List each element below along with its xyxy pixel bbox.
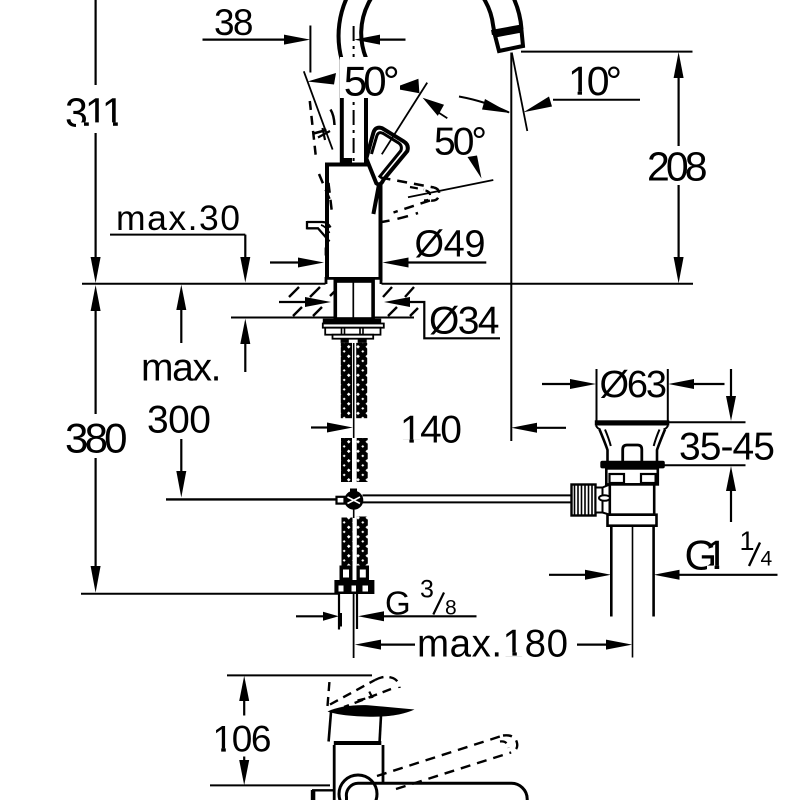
- dim G1 1/4 arrow right-pointing: [585, 570, 611, 580]
- band window 1: [339, 586, 344, 592]
- hose end nut right window: [360, 570, 366, 578]
- nut-body link: [596, 488, 603, 513]
- dim 38 arrow right-pointing: [284, 35, 310, 45]
- dim 35-45 bottom reference: [660, 464, 746, 466]
- dim G3/8 line left: [296, 615, 323, 617]
- dim 38 extension line: [309, 26, 311, 73]
- dashed lever pos2 inner edge: [410, 187, 424, 190]
- dim 35-45 arrow up: [726, 466, 736, 491]
- angle line right (solid handle axis): [382, 83, 427, 155]
- centerline extension below hoses: [353, 594, 355, 658]
- dim 380 arrow down: [91, 566, 101, 593]
- dashed lowered lever upper edge: [377, 736, 503, 777]
- dashed lever pos1 inner cap: [314, 130, 327, 134]
- dashed raised lever cap: [375, 677, 400, 688]
- left tab tick: [325, 248, 327, 256]
- dim max.30 lower shaft: [244, 344, 246, 372]
- washer white: [323, 324, 384, 328]
- body cylinder: [327, 165, 381, 280]
- left tab bottom edge: [307, 228, 330, 241]
- svg-text:max.30: max.30: [116, 198, 240, 238]
- dashed lever pos1 left edge: [310, 101, 316, 158]
- dim O63 line right: [694, 383, 725, 385]
- dim 311/380 shaft upper: [94, 0, 96, 257]
- tailpipe centerline: [632, 526, 634, 658]
- hose end band: [334, 580, 374, 594]
- aerator outlet block: [495, 31, 523, 52]
- mounting nut: [325, 328, 380, 335]
- cone upper: [603, 484, 610, 487]
- 106 bottom reference line: [210, 784, 330, 786]
- svg-text:311: 311: [65, 89, 125, 135]
- dim 140 right extension (vertical from deck): [510, 284, 512, 441]
- drain flange (thick): [595, 420, 670, 425]
- dim O34 arrow right-pointing: [305, 297, 331, 307]
- horizontal rod upper line: [363, 494, 572, 496]
- lever blade (black): [328, 705, 415, 717]
- dim 380 arrow up: [91, 285, 101, 311]
- dashed lever pos1 cap dash top: [344, 89, 351, 91]
- ball highlights: [348, 497, 361, 504]
- spout stub top edge: [312, 789, 334, 791]
- dim max.30 arrow down: [240, 257, 250, 283]
- dim G1 1/4 line left: [549, 574, 585, 576]
- O63 extension line left: [596, 369, 598, 421]
- deck top line left: [82, 283, 326, 285]
- 10 deg leader arrowhead: [524, 97, 553, 113]
- dim G1 1/4 line right: [680, 574, 778, 576]
- dim 208 arrow down: [674, 257, 684, 283]
- rod pin: [599, 495, 610, 501]
- dim 38 arrow left-pointing: [354, 35, 380, 45]
- deck hatching left lower row: [293, 307, 322, 316]
- pivot circle: [339, 775, 377, 800]
- dim G3/8 arrow left-pointing: [358, 611, 384, 621]
- svg-text:10°: 10°: [568, 58, 622, 104]
- lever shank into body: [373, 186, 378, 215]
- dashed lever pos1 lower edge b: [327, 166, 333, 213]
- deck hatching right lower row: [388, 307, 418, 316]
- deck hatching right upper row: [383, 287, 414, 297]
- svg-text:38: 38: [214, 2, 254, 43]
- dim 35-45 lower shaft: [730, 491, 732, 522]
- O63 extension line right: [667, 369, 669, 421]
- threaded shank: [335, 281, 373, 319]
- dashed raised lever upper edge: [330, 680, 375, 705]
- hose right lower braid: [357, 517, 368, 566]
- dim max180 arrow left-pointing: [355, 640, 381, 650]
- drain step: [608, 515, 657, 526]
- swivel arc arrowhead: [482, 99, 510, 113]
- hose connector right: [358, 339, 367, 343]
- svg-text:max.180: max.180: [417, 622, 568, 665]
- text 50 deg top background: [340, 57, 400, 98]
- 10 deg leader line: [553, 99, 640, 101]
- svg-text:Ø63: Ø63: [600, 364, 668, 406]
- dome taper left inner: [605, 430, 611, 447]
- gasket band (black): [600, 461, 665, 469]
- lever inner outline: [372, 133, 402, 178]
- svg-text:max.: max.: [141, 347, 222, 390]
- spout stub cap: [311, 790, 316, 800]
- svg-text:4: 4: [761, 547, 773, 570]
- dashed lever pos2 inner cap: [424, 191, 430, 201]
- bowtie arrowhead lower-right: [423, 98, 444, 116]
- angle arrowhead left line: [308, 73, 337, 85]
- raised lever left dashed edge: [328, 681, 330, 706]
- svg-text:Ø34: Ø34: [429, 299, 500, 342]
- slot right: [641, 474, 656, 483]
- 106 top reference line: [227, 674, 372, 676]
- dashed lever pos1 cap dash near pipe: [331, 110, 335, 126]
- angle line left (dashed handle axis): [304, 71, 333, 149]
- dim 208 top reference line: [521, 51, 693, 53]
- svg-text:G: G: [385, 584, 411, 621]
- nut facets: [342, 328, 364, 335]
- dim O63 line left: [542, 383, 571, 385]
- dome taper right outer: [657, 430, 665, 462]
- angle line for second 50 deg (lowered handle axis): [408, 180, 493, 197]
- deck top line right: [382, 283, 694, 285]
- side body joint bar: [334, 741, 382, 745]
- dim O49 line left: [270, 261, 298, 263]
- side body upper left edge: [329, 712, 331, 742]
- G3/8 fraction slash: [433, 593, 444, 615]
- knurled nut: [572, 485, 596, 516]
- tailpipe right: [652, 526, 655, 617]
- dim 35-45 arrow down: [726, 396, 736, 421]
- dome taper left outer: [600, 430, 608, 462]
- hose end nut left: [340, 566, 353, 581]
- knurl lines: [575, 485, 593, 515]
- svg-text:106: 106: [213, 719, 272, 760]
- washer black: [323, 319, 381, 324]
- dim 106 arrow up: [239, 676, 249, 701]
- dim G3/8 line right (underline): [384, 615, 477, 617]
- svg-text:140: 140: [400, 409, 462, 452]
- dim max300 arrow down: [176, 471, 186, 498]
- dim 380 shaft: [94, 311, 96, 566]
- dim max180 line left: [381, 643, 415, 645]
- rod ball nub: [350, 489, 357, 493]
- dashed lever pos1 lower edge a: [319, 174, 330, 200]
- deck bottom line left: [231, 317, 335, 319]
- horizontal rod lower line: [363, 501, 572, 503]
- lower plate: [333, 335, 374, 339]
- dome taper right inner: [654, 430, 660, 447]
- dim max.30 leader underline: [110, 234, 245, 236]
- dim max300 shaft lower: [180, 439, 182, 471]
- svg-text:Ø49: Ø49: [415, 224, 486, 266]
- bowtie overshoot line: [437, 112, 447, 119]
- svg-text:380: 380: [65, 415, 128, 462]
- dim O34 line left: [279, 301, 305, 303]
- deck bottom line right: [373, 317, 414, 319]
- rod collar: [337, 497, 345, 504]
- dim max.30 shaft: [244, 235, 246, 257]
- tilted 10 deg line: [512, 53, 528, 132]
- hose left upper braid: [341, 343, 352, 418]
- plug stem: [623, 445, 642, 461]
- dim 106 shaft: [243, 701, 245, 761]
- dim 106 arrow down: [239, 760, 249, 785]
- dashed lever pos2 right cap: [430, 188, 439, 201]
- dim max300 arrow up: [176, 285, 186, 310]
- dim 311 arrow down: [91, 257, 101, 283]
- aerator joint band: [492, 27, 522, 33]
- arrowhead 50 deg #2: [468, 156, 482, 179]
- hose left lower braid: [342, 518, 353, 566]
- tailpipe left: [610, 526, 613, 617]
- dashed body transition arc: [379, 213, 418, 223]
- left tab end cap: [306, 221, 308, 229]
- G3/8 short extension: [340, 613, 342, 627]
- spout riser inner edge: [361, 0, 494, 166]
- hose connector left: [341, 339, 349, 343]
- G3/8 tail left: [338, 594, 340, 630]
- body base plate: [326, 278, 381, 284]
- svg-text:3: 3: [420, 575, 434, 603]
- G3/8 tail right: [356, 594, 358, 629]
- black clamp square on body top: [340, 158, 352, 165]
- rod ball joint: [344, 491, 363, 510]
- side body lower left edge: [333, 745, 336, 800]
- bowtie arrowhead upper-left: [393, 79, 420, 94]
- spout riser outer edge (curves right off top of image): [339, 0, 522, 166]
- drain body lower: [610, 484, 654, 514]
- G1 fraction slash: [749, 543, 760, 567]
- side body lower right edge: [382, 745, 385, 782]
- dim O63 arrow left-pointing: [668, 379, 694, 389]
- shank centerline: [352, 281, 354, 319]
- dashed lever pos2 lower edge: [394, 201, 431, 213]
- svg-text:G1: G1: [685, 531, 729, 578]
- dashed raised lever lower edge: [344, 689, 391, 707]
- dashed lowered lever inner cap: [500, 741, 509, 748]
- hose end nut right: [357, 566, 370, 581]
- dim O34 arrow left-pointing: [384, 297, 410, 307]
- riser centerline (dash-dot): [353, 26, 355, 164]
- lever outline: [366, 128, 408, 185]
- horizontal lever: [346, 783, 527, 800]
- dim O49 arrow right-pointing: [298, 258, 324, 268]
- dashed lever pos1 inner cross: [318, 128, 330, 140]
- dashed lowered lever lower edge: [396, 753, 511, 790]
- hose right upper braid: [356, 343, 367, 418]
- hose end nut left window: [343, 570, 349, 578]
- dim 140 arrow left-pointing: [511, 423, 537, 433]
- dim max180 arrow right-pointing: [606, 640, 632, 650]
- left tab (pop-up knob) top edge: [307, 222, 331, 228]
- flange end droop left: [596, 426, 601, 430]
- swivel arc: [459, 97, 509, 113]
- dim O49 arrow left-pointing: [383, 258, 409, 268]
- dim 38 line right: [380, 38, 406, 40]
- dim 35-45 upper shaft: [730, 369, 732, 397]
- dim 35-45 top reference: [668, 421, 746, 423]
- dim max180 line right: [577, 643, 606, 645]
- band window 3: [363, 586, 369, 592]
- svg-text:50°: 50°: [344, 57, 400, 104]
- dim G3/8 arrow right-pointing: [323, 612, 339, 621]
- svg-text:300: 300: [147, 398, 211, 441]
- dim G1 1/4 arrow left-pointing: [654, 570, 680, 580]
- svg-text:1: 1: [740, 526, 755, 556]
- drain body upper: [606, 468, 658, 484]
- vertical reference line from spout tip: [510, 53, 512, 284]
- svg-text:35-45: 35-45: [679, 425, 775, 468]
- serif-foot whiteouts for digit 1 glyphs: [214, 92, 726, 753]
- band window 2: [352, 586, 357, 592]
- dim O63 arrow right-pointing: [570, 379, 596, 389]
- dashed lever pos2 upper edge: [381, 178, 435, 188]
- dashed lowered lever cap: [503, 735, 517, 752]
- dim max.30 arrow up: [240, 319, 250, 344]
- hose left mid braid: [341, 438, 352, 482]
- dim O34 step leader: [410, 302, 500, 338]
- hose-end reference line: [81, 593, 340, 595]
- side body upper right edge: [380, 716, 381, 742]
- hose centerline upper: [353, 343, 355, 438]
- dim 208 shaft: [677, 78, 679, 257]
- dim 208 arrow up: [674, 52, 684, 78]
- hose right mid braid: [357, 438, 368, 482]
- deck hatching left upper row: [289, 287, 335, 297]
- dim max300 shaft upper: [180, 310, 182, 343]
- serif-foot whiteout for 311: [76, 122, 126, 127]
- flange end droop right: [664, 426, 669, 430]
- dim 38 line left: [203, 38, 285, 40]
- dim 140 line left: [311, 426, 327, 428]
- pop-up rod left line: [166, 498, 337, 500]
- svg-text:208: 208: [647, 143, 708, 189]
- dim 140 arrow right-pointing: [327, 423, 353, 433]
- left tab inner line: [321, 225, 330, 233]
- svg-text:50°: 50°: [434, 120, 487, 163]
- dim 140 line right: [537, 427, 566, 429]
- dashed raised lever hook: [358, 691, 373, 701]
- centerline below ball: [353, 510, 355, 519]
- svg-text:8: 8: [445, 597, 457, 620]
- slot left: [610, 474, 625, 483]
- cone lower: [603, 513, 610, 515]
- dim O49 line right: [409, 261, 487, 263]
